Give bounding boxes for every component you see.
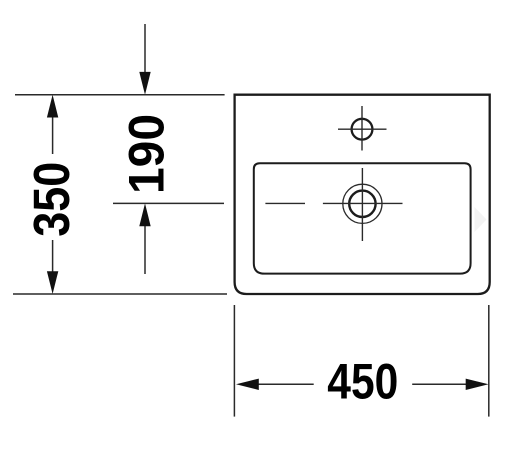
svg-text:450: 450 (327, 353, 398, 409)
svg-text:350: 350 (23, 162, 80, 237)
watermark triangle (475, 207, 487, 232)
dimension 350 upper tail (52, 116, 54, 154)
dimension 350 lower tail (52, 240, 54, 273)
extension line 450 left (233, 305, 235, 417)
dimension 190 lower arrow tail (144, 225, 146, 274)
drain crosshair horizontal short dash (265, 202, 305, 204)
dimension 350 lower arrowhead (47, 271, 58, 294)
drain crosshair horizontal long dash (323, 202, 403, 204)
drain inner circle (349, 191, 375, 217)
basin inner bowl outline (254, 163, 471, 273)
drain crosshair vertical (361, 168, 363, 241)
dimension 450 left arrowhead (236, 379, 259, 390)
dimension 450 right tail (412, 383, 467, 385)
extension line 450 right (488, 305, 490, 417)
dimension 350 upper arrowhead (47, 95, 58, 118)
svg-text:190: 190 (118, 114, 174, 194)
extension line top (back edge) (15, 94, 225, 96)
extension line drain center (113, 202, 224, 204)
faucet crosshair horizontal (338, 128, 387, 130)
dimension 190 upper arrowhead (139, 72, 150, 95)
dimension 450 right arrowhead (466, 379, 489, 390)
dimension 450 left tail (257, 383, 314, 385)
extension line bottom (front edge) (13, 293, 227, 295)
faucet crosshair vertical (361, 106, 363, 151)
drain outer circle (343, 184, 382, 223)
dimension 190 lower arrowhead (139, 203, 150, 226)
dimension 190 upper arrow tail (144, 24, 146, 73)
basin outer outline (235, 95, 490, 294)
faucet hole circle (352, 119, 373, 140)
